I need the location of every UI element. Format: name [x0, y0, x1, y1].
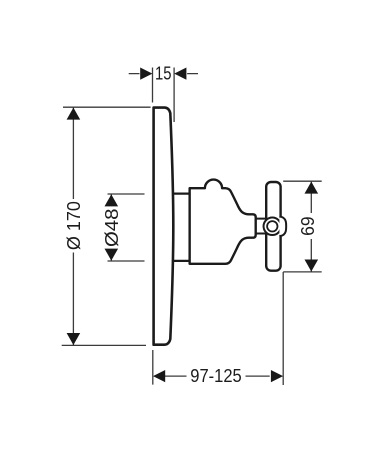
dimension 15: leader tails: [129, 73, 198, 75]
dimension 15: left arrow: [140, 68, 152, 80]
dimension D48: top arrow: [105, 194, 119, 206]
dimension D170: dimension line: [72, 107, 74, 345]
dimension 15: extension lines: [153, 68, 175, 123]
escutcheon plate (side view): [154, 108, 174, 345]
svg-text:Ø 170: Ø 170: [64, 201, 84, 250]
dimension 97-125: extension lines: [153, 272, 283, 385]
dimension D170: bottom arrow: [67, 333, 81, 345]
dimension 97-125: right arrow: [271, 370, 283, 382]
dimension D48: bottom arrow: [105, 249, 119, 261]
dimension 69: bottom arrow: [305, 260, 319, 272]
handle body with top button bump and neck: [190, 180, 256, 264]
hub flange bump (right of bar): [279, 217, 286, 237]
svg-text:69: 69: [298, 216, 318, 236]
dimension D170: extension lines: [62, 107, 151, 345]
svg-text:Ø48: Ø48: [102, 209, 122, 248]
svg-text:15: 15: [155, 64, 172, 84]
dimension 69: top arrow: [305, 182, 319, 194]
dimension 15: right arrow: [174, 68, 186, 80]
dimension D170: top arrow: [67, 108, 81, 120]
hub outer circle: [264, 218, 282, 236]
sleeve stub (48mm) top/bottom lines: [169, 194, 192, 261]
dimension 69: dimension line: [310, 181, 312, 272]
dimension 97-125: dimension line: [165, 375, 270, 377]
dimension 69: extension lines: [283, 181, 322, 272]
dimension 97-125: left arrow: [153, 370, 165, 382]
svg-text:97-125: 97-125: [190, 366, 242, 386]
spindle shaft lines to hub: [256, 219, 267, 234]
hub inner circle: [267, 221, 277, 231]
cross handle vertical bar: [266, 182, 280, 271]
dimension D48: dimension line: [110, 194, 112, 261]
dimension D48: extension lines: [108, 194, 145, 261]
